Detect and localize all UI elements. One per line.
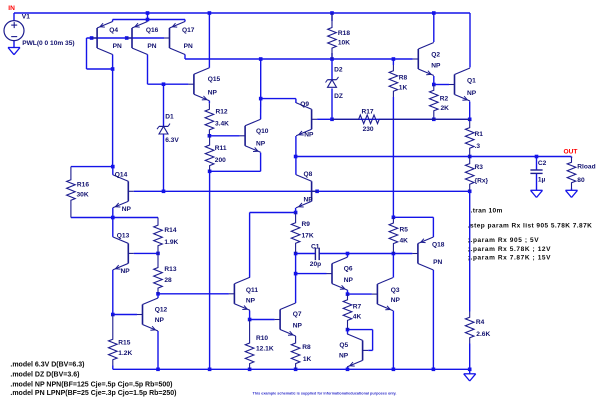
wire Q9 collector stub [295,99,297,103]
label R2 [440,95,449,102]
directive model 6.3V [10,362,84,369]
label Q5 [339,342,348,349]
resistor R8 upper [389,65,398,97]
label Q1 [467,77,476,84]
label Q9 model NP [304,132,314,139]
wire Q9 base to D2 anode [317,118,332,120]
label Q8 [304,171,313,178]
svg-text:.tran 10m: .tran 10m [471,208,503,215]
svg-text:Q8: Q8 [304,171,313,178]
svg-text:.step param Rx list 905 5.78K: .step param Rx list 905 5.78K 7.87K [468,223,593,230]
wire Q4 emitter stub [112,20,114,22]
label R1 [475,131,484,138]
label Q7 [293,311,302,318]
svg-text:R16: R16 [77,182,89,189]
label R3 [475,164,484,171]
label R16 [77,182,89,189]
node junction bottom/Q18 collector [432,368,436,372]
label R7 [353,304,362,311]
node junction bottom/R10 [248,368,252,372]
label Q1 model NP [467,90,477,97]
svg-text:Rload: Rload [577,164,595,171]
wire Q14 emitter vertical [112,208,114,218]
wire left feedback vertical [86,38,88,69]
svg-text:Q1: Q1 [467,77,476,84]
node junction rail1/Q2 collector [432,11,436,15]
label R18 value [338,39,350,46]
label C1 value [310,261,321,268]
svg-text:Q4: Q4 [109,27,118,34]
svg-text:4K: 4K [400,237,409,244]
label R8 upper [399,74,408,81]
label D2 [334,67,343,74]
resistor R3 [465,157,474,192]
wire Q8 emitter stub [295,208,297,213]
svg-text:PN: PN [184,43,193,50]
label R12 value [215,120,229,127]
label Q16 [146,27,159,34]
svg-text:20p: 20p [310,261,321,268]
node junction R18/D2 [330,57,334,61]
label D2 model DZ [334,93,343,100]
label R9 value [302,233,314,240]
svg-text:R15: R15 [118,339,130,346]
transistor Q14 (mirrored) [113,175,134,208]
wire R18 top lead [331,13,333,21]
diode D2 zener [326,77,339,87]
label Q10 model NP [256,141,266,148]
label Q2 [431,51,440,58]
wire C2 top lead [536,157,538,171]
svg-text:Q13: Q13 [117,232,130,239]
svg-text:Q6: Q6 [344,265,353,272]
label Q7 model NP [293,322,303,329]
node junction Q12 base [111,313,115,317]
wire R5 top to Q18 emitter [393,216,433,218]
capacitor C1 [315,248,319,260]
wire zener rail [332,118,470,120]
label Q14 [115,172,128,179]
wire Q6 base horizontal [296,273,327,275]
wire left feedback bottom [87,68,113,70]
label Q4 [109,27,118,34]
wire PNP base rail [87,37,165,39]
label R8 lower value [303,356,312,363]
node junction bottom/Q5 emitter [346,368,350,372]
wire Q17 collector vertical [184,55,186,60]
svg-text:10K: 10K [338,39,350,46]
svg-text:Q11: Q11 [246,287,258,294]
label R8 lower [302,344,311,351]
svg-text:Q15: Q15 [208,76,221,83]
transistor Q8 (mirrored) [296,175,317,208]
svg-text:R18: R18 [338,30,350,37]
wire ground stub [469,369,471,374]
svg-text:Q17: Q17 [182,27,195,34]
wire Q13 collector vertical [112,218,114,237]
wire PNP emitter rail [113,19,185,21]
wire Q5 base loop right [372,330,374,351]
wire C2 bottom lead [536,173,538,190]
wire Q14 collector stub [112,167,114,175]
label Q2 model NP [431,63,441,70]
wire Q5 emitter stub [347,367,349,369]
transistor Q17 [164,22,185,55]
svg-text:Q7: Q7 [293,311,302,318]
transistor Q9 (mirrored) [296,103,317,136]
node junction R14/R13 [156,252,160,256]
svg-text:R11: R11 [215,145,227,152]
resistor Rload [567,157,576,189]
svg-text:PN: PN [147,43,156,50]
label Q18 model PN [433,259,442,266]
wire Rload top corner [571,157,573,159]
label Q16 model PN [147,43,156,50]
node junction OUT tap [294,155,298,159]
resistor R1 [465,119,474,156]
node junction bottom/R4 ground [468,368,472,372]
label R4 [476,319,485,326]
label R11 [215,145,227,152]
label V1 value PWL [22,40,74,47]
wire Q3 emitter vertical [392,311,394,370]
wire Q16 collector vertical [147,55,149,85]
wire R9-Q6 base vertical [295,254,297,274]
svg-text:.3: .3 [475,143,481,150]
wire rail1-rail2 connector at Q16 [147,13,149,20]
svg-text:3.4K: 3.4K [215,120,229,127]
svg-text:NP: NP [344,277,354,284]
svg-text:DZ: DZ [334,93,343,100]
wire Q6 emitter stub [347,290,349,294]
svg-text:.model NP NPN(BF=125 Cje=.5p C: .model NP NPN(BF=125 Cje=.5p Cjo=.5p Rb=… [10,381,172,388]
node junction Q6 emitter/R7 [346,292,350,296]
node junction Q8 emitter/R9 [294,211,298,215]
comment param 5V [468,237,539,244]
wire D1 column upper [163,84,165,126]
wire R16 top horizontal [71,166,113,168]
wire Q12 emitter vertical [157,331,159,369]
label R5 value [400,237,409,244]
wire Q11 collector top [250,212,296,214]
transistor Q12 [137,298,158,331]
node junction D1 top [162,82,166,86]
label R17 [362,109,374,116]
transistor Q6 [327,257,348,290]
svg-text:.model DZ D(BV=3.6): .model DZ D(BV=3.6) [10,371,79,378]
label R5 [400,226,409,233]
label R10 [256,335,268,342]
node junction bottom/Q12 emitter [156,368,160,372]
label Q6 [344,265,353,272]
label R17 value [363,126,374,133]
port OUT [564,149,578,156]
svg-text:NP: NP [467,90,477,97]
svg-text:{Rx}: {Rx} [475,177,489,184]
svg-text:80: 80 [577,177,585,184]
wire Q10 emitter vertical [260,153,262,172]
svg-text:.model 6.3V D(BV=6.3): .model 6.3V D(BV=6.3) [10,362,84,369]
node junction R8 top [392,57,396,61]
svg-text:.model PN LPNP(BF=25 Cje=.3p C: .model PN LPNP(BF=25 Cje=.3p Cjo=1.5p Rb… [10,390,176,397]
svg-text:R3: R3 [475,164,484,171]
wire Q15 emitter stub [208,101,210,104]
wire bottom left rail [113,368,470,370]
label Q9 [300,101,309,108]
svg-text:NP: NP [208,90,218,97]
svg-text:Q14: Q14 [115,172,128,179]
wire R8 to R5 node [392,97,394,217]
node junction Q14 collector [111,165,115,169]
label Q14 model NP [122,206,132,213]
svg-text:NP: NP [431,63,441,70]
label Q11 [246,287,258,294]
label D1 value 6.3V [165,137,179,144]
voltage source V1 [4,21,24,41]
fine print notice [253,392,397,396]
transistor Q4 [92,22,113,55]
label R7 value [353,314,362,321]
comment param 12V [468,246,551,253]
svg-text:;.param Rx 5.78K ; 12V: ;.param Rx 5.78K ; 12V [468,246,551,253]
wire Q13 base to R14 bottom [134,252,158,254]
svg-text:Q16: Q16 [146,27,159,34]
label Rload [577,164,595,171]
transistor Q3 [372,278,393,311]
ground main [464,374,476,381]
label R3 value [475,177,489,184]
svg-text:R7: R7 [353,304,362,311]
svg-text:C2: C2 [538,160,547,167]
label C2 value [538,177,546,184]
transistor Q7 [275,303,296,336]
svg-text:D2: D2 [334,67,343,74]
resistor R10 [245,320,254,370]
svg-text:V1: V1 [22,13,30,20]
directive tran [471,208,503,215]
svg-text:D1: D1 [165,114,174,121]
node junction rail/D2 anode [330,118,334,122]
directive model DZ [10,371,79,378]
node junction rail/Q1 emitter R1 [468,118,472,122]
svg-text:Q2: Q2 [431,51,440,58]
label Q17 model PN [184,43,193,50]
directive step param [468,223,593,230]
label R14 [164,227,176,234]
wire Q10 collector vertical [260,59,262,99]
svg-text:PWL(0 0 10m 35): PWL(0 0 10m 35) [22,40,74,47]
label C2 [538,160,547,167]
wire Rload bottom lead [571,189,573,191]
wire Q11 collector vertical [249,213,251,278]
wire Q11 base rail [158,293,229,295]
label Q15 [208,76,221,83]
label Q18 [432,242,445,249]
wire Q1 emitter vertical [469,102,471,120]
wire Q2 emitter stub [433,76,435,85]
wire Q5 base loop top [348,329,373,331]
svg-text:PN: PN [433,259,442,266]
svg-text:R12: R12 [216,109,228,116]
directive model NP [10,381,172,388]
svg-text:1µ: 1µ [538,177,546,184]
transistor Q16 [127,22,148,55]
wire Q2 base rail [185,58,413,60]
wire R4 upper column [469,191,471,311]
label Q6 model NP [344,277,354,284]
node junction Q6 base/Q7 collector [294,272,298,276]
label R13 value [164,277,172,284]
node junction OUT/C2 [535,155,539,159]
svg-text:1.2K: 1.2K [118,350,132,357]
svg-text:2K: 2K [441,105,450,112]
resistor R4 [465,312,474,344]
wire long vertical R11 to bottom rail [209,171,211,369]
label Q8 model NP [304,197,314,204]
label R14 value [164,239,178,246]
svg-text:1K: 1K [303,356,312,363]
svg-text:R9: R9 [302,221,311,228]
svg-text:IN: IN [8,5,15,12]
svg-text:R4: R4 [476,319,485,326]
node junction mid rail/R3 bottom [468,190,472,194]
wire R8 upper column [392,59,394,65]
wire Q11 emitter stub [249,311,251,320]
transistor Q1 [449,68,470,101]
node junction Q4 base [90,36,94,40]
wire Q9 collector horizontal [261,98,296,100]
label R13 [164,266,176,273]
wire V1 bottom lead [13,41,15,48]
wire R16 bottom horizontal [71,217,158,219]
comment param 15V [468,254,551,261]
node junction R5 top [392,216,396,220]
wire Q16 collector to Q15 base [148,83,189,85]
node junction rail1/Q15 collector [208,11,212,15]
svg-text:;.param Rx 905 ; 5V: ;.param Rx 905 ; 5V [468,237,539,244]
svg-text:Q10: Q10 [256,128,269,135]
node junction Q4 collector loop [111,67,115,71]
resistor R17 [332,115,470,124]
svg-text:12.1K: 12.1K [256,346,274,353]
node junction bottom/long vertical [208,368,212,372]
svg-text:NP: NP [121,268,131,275]
wire R15 bottom stub [112,366,114,370]
svg-text:NP: NP [304,197,314,204]
label Q4 model PN [113,43,122,50]
wire Q12 collector stub [157,294,159,298]
label Q15 model NP [208,90,218,97]
wire C1 to Q18 base [319,253,412,255]
wire Q16 emitter stub [147,20,149,22]
node junction R7 bottom [346,328,350,332]
svg-text:OUT: OUT [564,149,578,156]
svg-text:28: 28 [164,277,172,284]
wire D2 anode vertical [331,89,333,120]
svg-text:6.3V: 6.3V [165,137,179,144]
wire Q11 emitter to Q7 base [250,319,275,321]
transistor Q5 (mirrored) [347,334,368,367]
label R8 upper value [399,85,408,92]
svg-text:NP: NP [155,317,165,324]
node junction bottom/Q3 emitter [392,368,396,372]
label Q13 [117,232,130,239]
node junction Q1 base/R2 [432,83,436,87]
wire Q3 base horizontal [348,293,372,295]
label V1 [22,13,30,20]
svg-text:PN: PN [113,43,122,50]
transistor Q10 [240,119,261,152]
wire Q7 collector vertical [295,274,297,303]
wire Q13 emitter vertical [112,270,114,315]
wire R11 bottom horizontal [210,170,261,172]
label R9 [302,221,311,228]
label Q13 model NP [121,268,131,275]
resistor R9 [291,213,300,254]
node junction R12/R11 [208,134,212,138]
wire D1 column lower [163,134,165,191]
svg-text:NP: NP [339,352,349,359]
svg-text:Q18: Q18 [432,242,445,249]
label Q3 [391,287,400,294]
wire Q15 collector vertical [208,13,210,68]
node junction rail1/R18 [330,11,334,15]
resistor R7 [343,294,352,330]
wire Q5 base loop bottom [368,349,372,351]
ground below V1 [8,48,20,55]
label Q5 model NP [339,352,349,359]
label Rload value [577,177,585,184]
svg-text:NP: NP [391,297,401,304]
wire Q18 emitter vertical [432,217,434,237]
wire R12 to Q10 base [209,135,239,137]
svg-text:NP: NP [246,297,256,304]
wire top supply rail IN net [14,12,470,14]
svg-text:17K: 17K [302,233,314,240]
wire Q12 base horizontal [113,314,137,316]
wire Q1 base horizontal [434,84,449,86]
svg-text:R13: R13 [164,266,176,273]
label Q11 model NP [246,297,256,304]
node junction Q6 collector [346,252,350,256]
label Q17 [182,27,195,34]
transistor Q2 [413,43,434,76]
resistor R5 [389,217,398,253]
wire Q2 collector vertical [433,13,435,42]
node junction rail1/Q16 emitter [146,11,150,15]
diode D1 zener [157,124,170,134]
wire R4 bottom lead [469,344,471,370]
svg-text:1.9K: 1.9K [164,239,178,246]
port IN [8,5,15,12]
svg-text:Q12: Q12 [155,307,168,314]
svg-text:1K: 1K [399,85,408,92]
svg-text:R1: R1 [475,131,484,138]
svg-text:R10: R10 [256,335,268,342]
svg-text:C1: C1 [311,244,320,251]
resistor R13 [154,253,163,293]
svg-text:4K: 4K [353,314,362,321]
node junction Q14 emitter/R14 [111,216,115,220]
node junction Q11 emitter/R10 [248,318,252,322]
label D1 [165,114,174,121]
svg-text:NP: NP [293,322,303,329]
label R12 [216,109,228,116]
label R1 value [475,143,481,150]
transistor Q13 (mirrored) [113,237,134,270]
label Q12 model NP [155,317,165,324]
svg-text:R8: R8 [399,74,408,81]
